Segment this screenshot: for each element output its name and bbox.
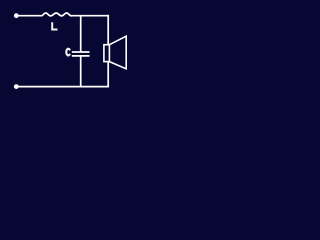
terminal (bottom-left input) bbox=[14, 84, 19, 89]
wire (right vertical: speaker to bottom corner) bbox=[107, 62, 109, 88]
wire (top: inductor to top-right corner) bbox=[72, 15, 110, 17]
wire (capacitor bottom lead) bbox=[80, 56, 82, 86]
capacitor C bbox=[72, 16, 90, 87]
label C bbox=[66, 49, 70, 56]
speaker LS1 (driver rectangle) bbox=[104, 45, 110, 62]
inductor L bbox=[41, 13, 71, 16]
terminal (top-left input) bbox=[14, 13, 19, 18]
wire (top-left: terminal to inductor) bbox=[17, 15, 41, 17]
label L bbox=[52, 22, 57, 29]
wire (capacitor top lead) bbox=[80, 16, 82, 52]
capacitor plate (bottom) bbox=[72, 55, 90, 57]
wire (right vertical: top corner to speaker) bbox=[107, 15, 109, 45]
capacitor plate (top) bbox=[72, 51, 90, 53]
wire (bottom: terminal to bottom-right corner) bbox=[17, 86, 108, 88]
speaker LS1 (cone) bbox=[109, 36, 126, 69]
